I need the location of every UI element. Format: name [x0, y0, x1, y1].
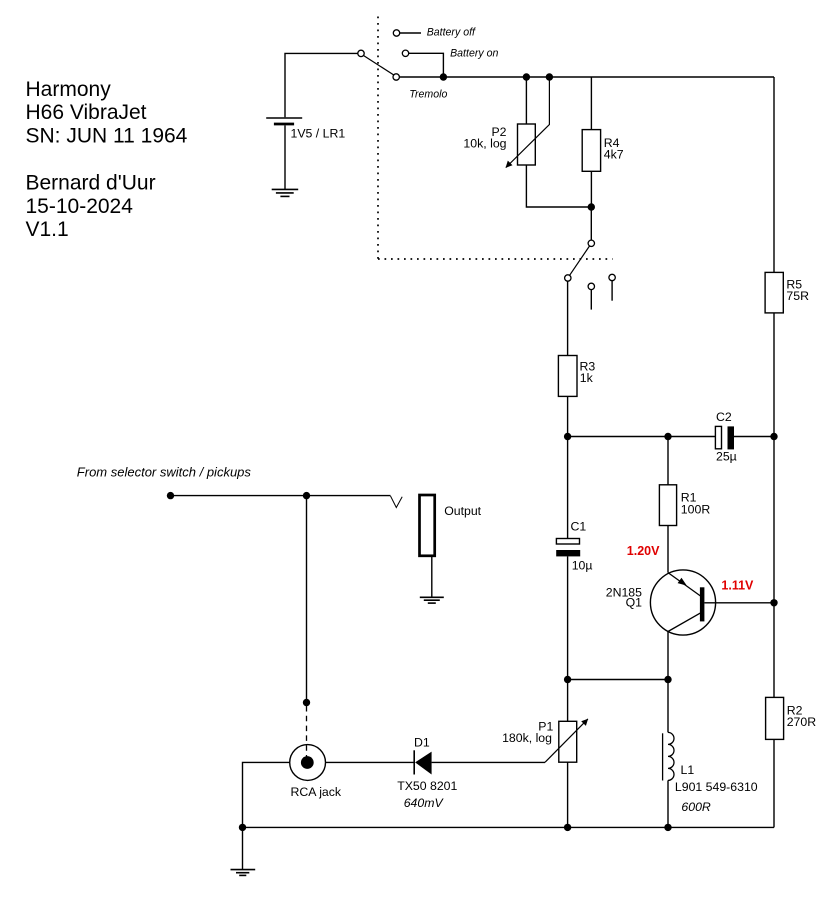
wire R4 bottom — [590, 171, 592, 207]
wire R2 top — [773, 603, 775, 698]
stub terminal right — [609, 274, 615, 280]
wire P2 top — [525, 77, 527, 124]
wire node row y436.5 — [568, 436, 716, 438]
wire RCA left — [243, 762, 290, 827]
capacitor C1 10u — [556, 437, 592, 680]
dotted boundary horizontal — [378, 258, 613, 260]
svg-text:SN: JUN 11 1964: SN: JUN 11 1964 — [26, 125, 188, 148]
svg-text:Output: Output — [444, 504, 481, 518]
svg-text:75R: 75R — [786, 289, 809, 303]
resistor R4 4k7 — [582, 77, 624, 207]
wire right rail top — [773, 77, 775, 272]
node dashed start — [303, 699, 310, 706]
svg-text:Bernard d'Uur: Bernard d'Uur — [26, 171, 156, 194]
svg-text:H66 VibraJet: H66 VibraJet — [26, 101, 147, 124]
svg-text:From selector switch / pickups: From selector switch / pickups — [77, 464, 252, 479]
collector line — [668, 613, 701, 632]
wire battery bottom — [284, 125, 286, 189]
svg-text:D1: D1 — [414, 735, 430, 749]
wire main supply rail y77 — [399, 76, 774, 78]
battery plate long — [266, 117, 302, 119]
node R3 bottom — [564, 433, 571, 440]
core line — [662, 733, 664, 780]
svg-text:1V5 / LR1: 1V5 / LR1 — [291, 127, 346, 141]
node battery-on junction — [440, 73, 447, 80]
svg-text:1.20V: 1.20V — [627, 544, 660, 558]
svg-text:L901 549-6310: L901 549-6310 — [675, 780, 758, 794]
P1 wiper arrow — [545, 719, 588, 762]
wire L1 bottom — [667, 780, 669, 827]
wire P1 bottom — [567, 762, 569, 827]
svg-text:Tremolo: Tremolo — [409, 89, 447, 101]
battery BT1 1V5/LR1 — [266, 53, 358, 189]
wire RCA right — [326, 761, 414, 763]
svg-text:V1.1: V1.1 — [26, 218, 69, 241]
node input branch — [303, 492, 310, 499]
emitter line — [668, 573, 701, 596]
coil — [668, 732, 674, 780]
node Q1 collector / L1 — [664, 676, 671, 683]
svg-text:Harmony: Harmony — [26, 78, 112, 101]
svg-text:C1: C1 — [571, 519, 587, 533]
svg-text:4k7: 4k7 — [604, 147, 624, 161]
svg-text:1k: 1k — [580, 371, 594, 385]
svg-text:600R: 600R — [681, 800, 711, 814]
wire junction to switch — [590, 207, 592, 240]
emitter arrow — [678, 578, 687, 586]
wire C2 right — [734, 436, 774, 438]
wire R3 bottom — [567, 396, 569, 436]
node C1/P1 — [564, 676, 571, 683]
blade — [570, 246, 590, 275]
svg-text:C2: C2 — [716, 410, 732, 424]
diode D1 — [397, 735, 545, 810]
wire emitter row y679.5 — [568, 679, 668, 681]
switch S1 blade terminal on wire — [393, 74, 399, 80]
wire jack sleeve — [431, 556, 433, 597]
cathode bar — [413, 750, 415, 774]
resistor R1 100R — [659, 437, 710, 573]
svg-text:RCA jack: RCA jack — [291, 785, 342, 799]
svg-text:L1: L1 — [681, 763, 695, 777]
svg-text:Battery on: Battery on — [450, 48, 498, 60]
base bar — [700, 587, 705, 621]
terminal Battery off — [393, 26, 476, 38]
wire L1 top — [667, 680, 669, 733]
wire R1 top — [667, 437, 669, 485]
svg-text:10k, log: 10k, log — [463, 137, 506, 151]
svg-text:Q1: Q1 — [626, 596, 643, 610]
potentiometer P1 180k log — [502, 680, 588, 828]
wire R2 bottom — [773, 739, 775, 827]
switch S1 pole terminal — [358, 50, 364, 56]
node base right rail — [770, 599, 777, 606]
jack contact V — [391, 496, 403, 508]
node R1 top — [664, 433, 671, 440]
svg-text:100R: 100R — [681, 502, 711, 516]
dashed link to RCA tip — [306, 706, 308, 757]
resistor R3 1k — [558, 281, 595, 436]
switch S1 battery on/off (blade) — [364, 56, 394, 75]
wire D1 right — [432, 761, 545, 763]
svg-text:Battery off: Battery off — [427, 26, 476, 38]
svg-text:25µ: 25µ — [716, 449, 737, 463]
inductor L1 — [663, 680, 758, 828]
wire switch to R3 — [567, 281, 569, 355]
node C2 right rail — [770, 433, 777, 440]
svg-text:270R: 270R — [787, 715, 817, 729]
wire P2 bottom — [526, 165, 591, 207]
dotted boundary vertical — [377, 17, 379, 260]
svg-text:180k, log: 180k, log — [502, 731, 552, 745]
ground (bottom) — [231, 870, 256, 876]
terminal Battery on — [402, 48, 498, 77]
wire C1 bottom — [567, 556, 569, 679]
output jack body — [420, 495, 482, 597]
transistor Q1 2N185 — [606, 570, 774, 680]
wire right rail mid — [773, 313, 775, 603]
capacitor C2 25u — [715, 410, 774, 463]
wire bottom rail — [243, 826, 775, 828]
wire to ground bottom — [242, 827, 244, 869]
ground (output jack) — [420, 597, 444, 603]
svg-text:1.11V: 1.11V — [721, 579, 754, 593]
RCA jack — [290, 745, 342, 799]
wire R1 bottom to Q1 — [667, 526, 669, 573]
svg-text:640mV: 640mV — [404, 796, 445, 810]
battery plate short — [274, 123, 294, 126]
wire input branch down — [306, 496, 308, 703]
switch S2 tremolo foot switch — [565, 207, 616, 310]
title block text — [26, 78, 188, 241]
svg-text:TX50 8201: TX50 8201 — [397, 779, 457, 793]
stub terminal center — [588, 283, 594, 289]
P2 wiper arrow — [506, 77, 550, 168]
node P2 top — [523, 73, 530, 80]
wire R4 top — [590, 77, 592, 130]
node input start — [167, 492, 174, 499]
wire input — [171, 495, 391, 497]
wire battery top — [285, 53, 358, 117]
resistor R2 270R — [766, 603, 817, 828]
node P2 wiper top — [546, 73, 553, 80]
node L1 bottom — [664, 824, 671, 831]
wire P1 top — [567, 680, 569, 722]
anode triangle — [415, 752, 432, 775]
base lead — [704, 602, 774, 604]
node P2/R4 bottom junction — [588, 203, 595, 210]
node P1 bottom — [564, 824, 571, 831]
svg-text:10µ: 10µ — [572, 559, 593, 573]
wire C1 top — [567, 437, 569, 539]
potentiometer P2 10k log — [463, 77, 591, 207]
ground (battery) — [272, 189, 299, 196]
svg-text:15-10-2024: 15-10-2024 — [26, 195, 134, 218]
resistor R5 75R — [765, 272, 809, 313]
node bottom left — [239, 824, 246, 831]
collector wire — [667, 632, 669, 680]
